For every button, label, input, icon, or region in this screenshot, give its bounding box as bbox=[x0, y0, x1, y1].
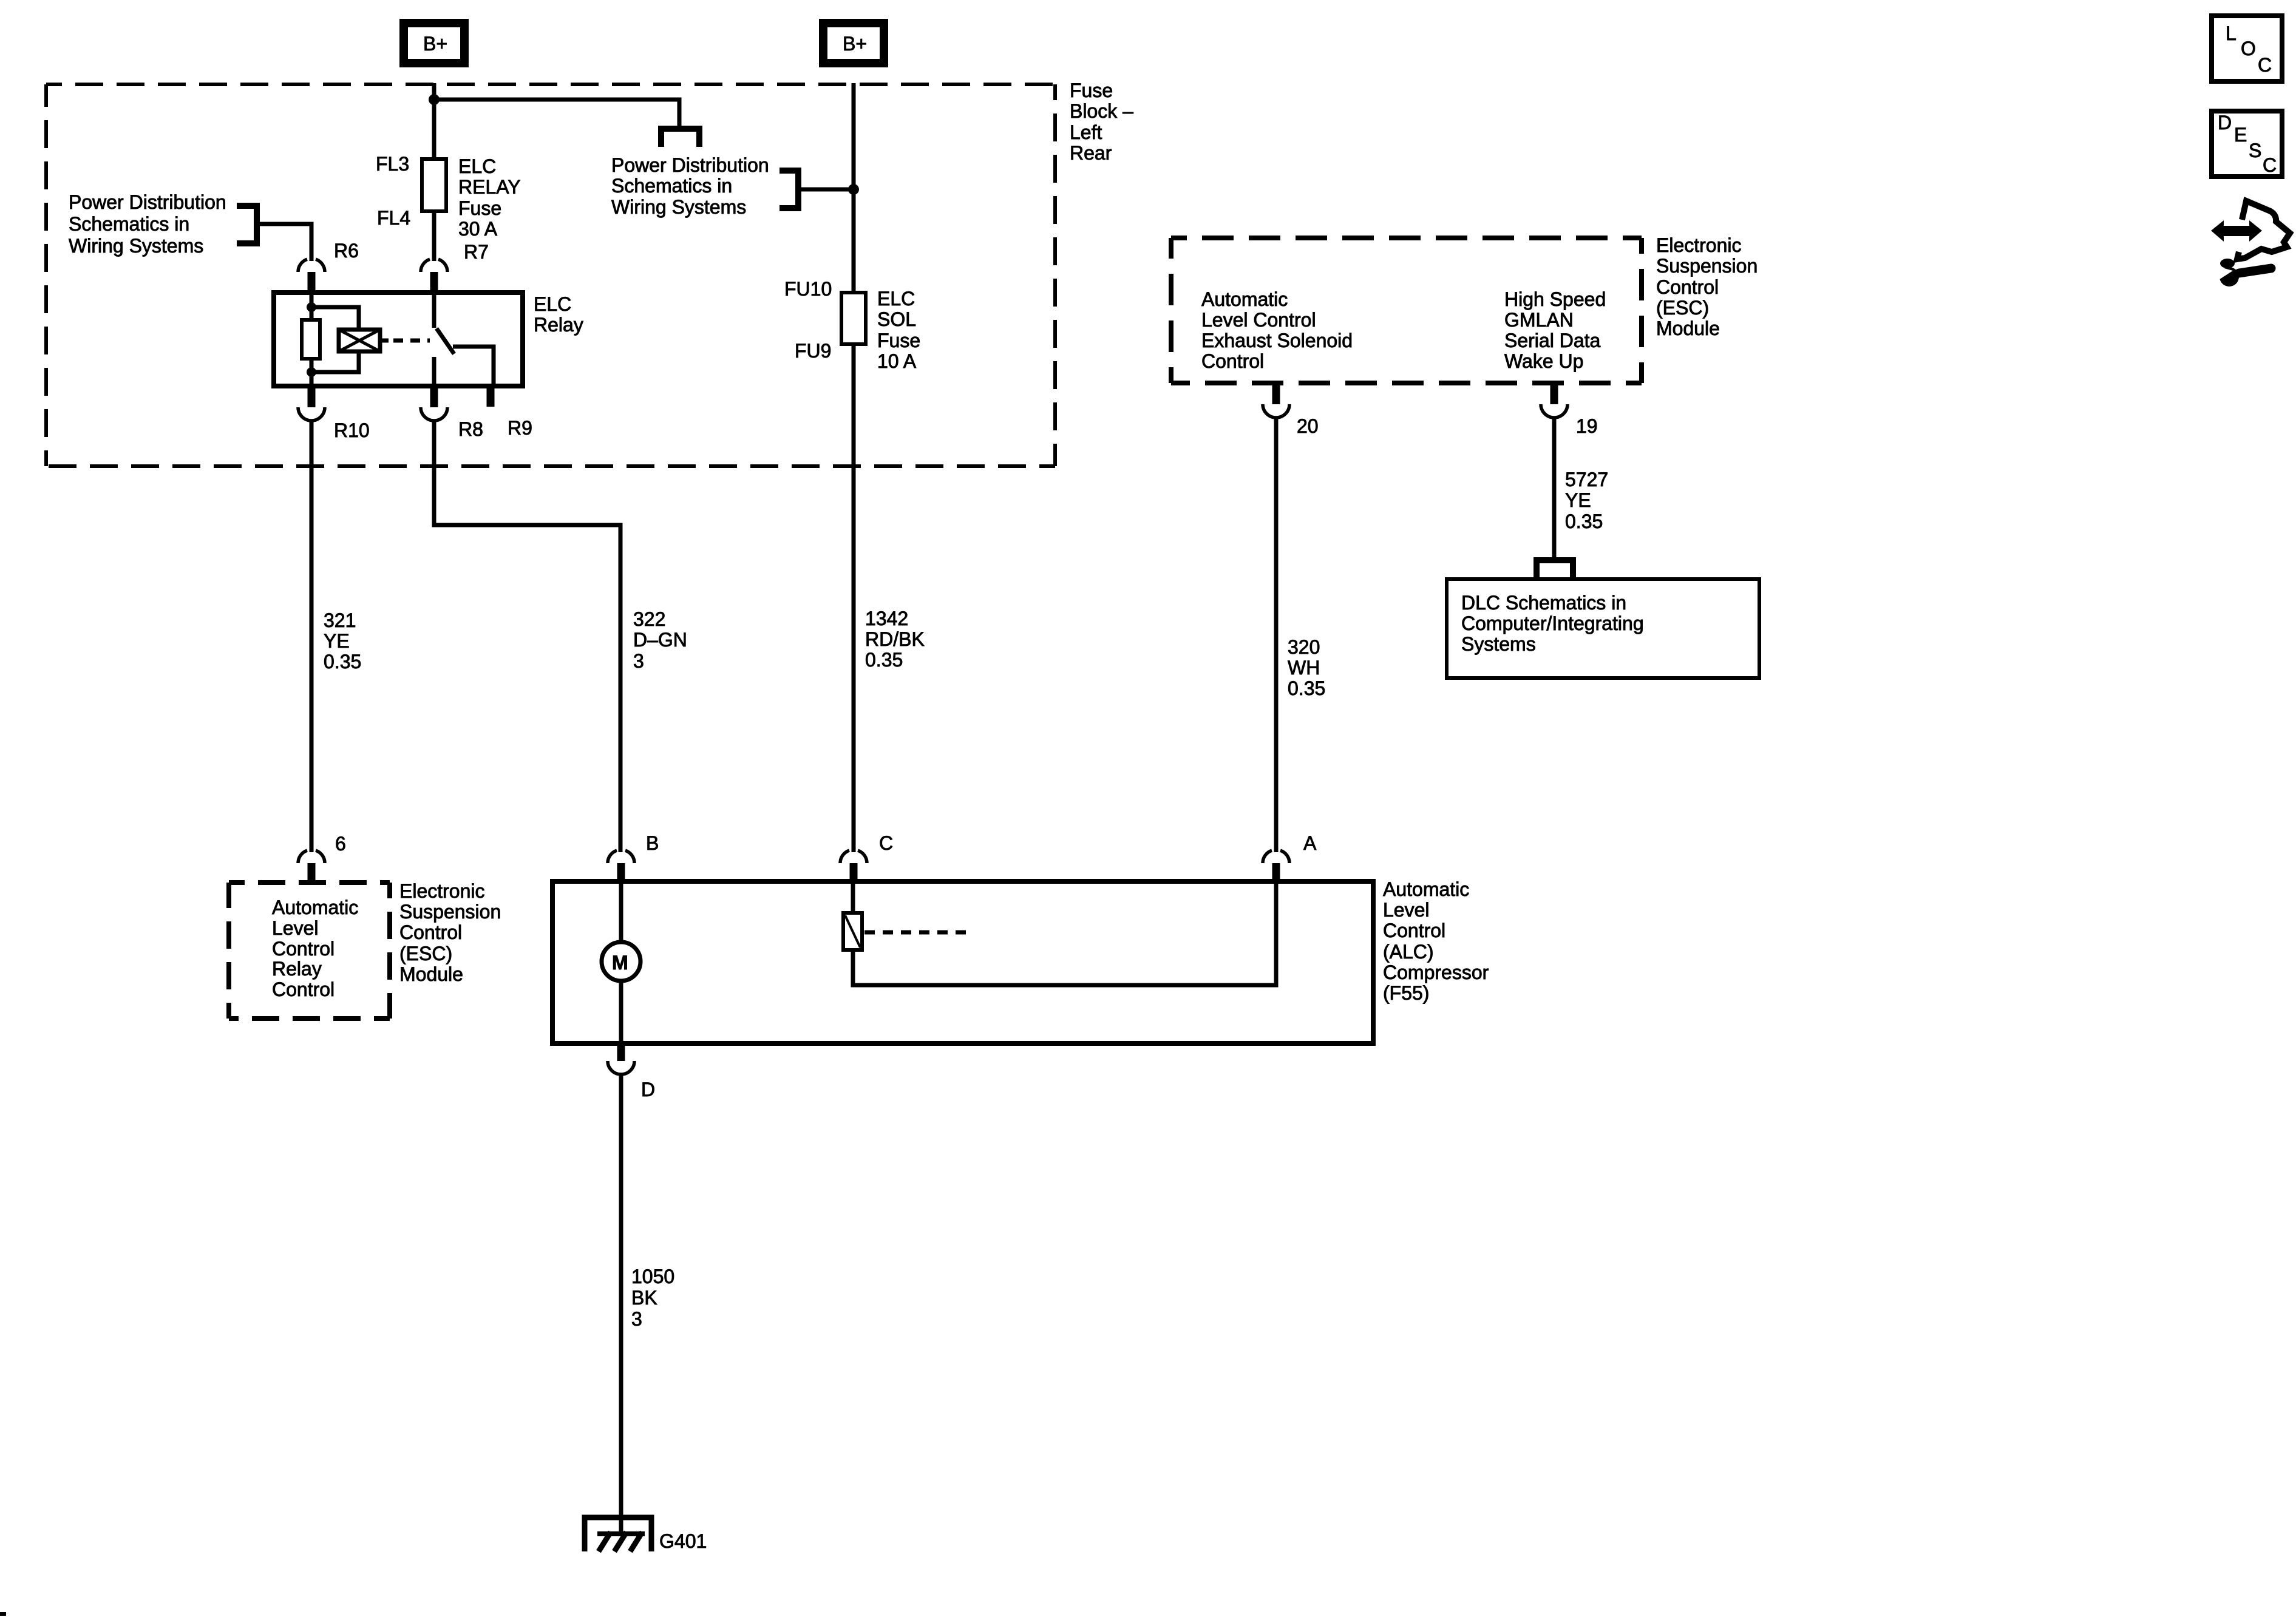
svg-text:FL3: FL3 bbox=[376, 153, 409, 175]
svg-text:1342: 1342 bbox=[865, 608, 908, 629]
svg-text:Fuse: Fuse bbox=[458, 197, 501, 219]
svg-text:A: A bbox=[1303, 832, 1317, 854]
svg-text:Suspension: Suspension bbox=[1656, 255, 1758, 277]
svg-text:O: O bbox=[2241, 38, 2256, 59]
svg-text:Compressor: Compressor bbox=[1383, 961, 1489, 983]
svg-text:Wiring Systems: Wiring Systems bbox=[69, 235, 203, 257]
svg-text:GMLAN: GMLAN bbox=[1504, 309, 1574, 331]
svg-text:S: S bbox=[2249, 140, 2261, 161]
svg-text:321: 321 bbox=[324, 609, 356, 631]
svg-text:G401: G401 bbox=[659, 1530, 707, 1552]
svg-text:FU9: FU9 bbox=[795, 340, 831, 362]
svg-text:(ESC): (ESC) bbox=[1656, 297, 1709, 319]
svg-text:Fuse: Fuse bbox=[877, 330, 920, 351]
svg-text:0.35: 0.35 bbox=[324, 651, 361, 673]
svg-text:Electronic: Electronic bbox=[1656, 234, 1742, 256]
svg-text:Systems: Systems bbox=[1461, 633, 1536, 655]
svg-text:Serial Data: Serial Data bbox=[1504, 330, 1601, 351]
svg-text:20: 20 bbox=[1297, 415, 1319, 437]
svg-text:Automatic: Automatic bbox=[1383, 878, 1469, 900]
svg-text:(F55): (F55) bbox=[1383, 982, 1429, 1004]
svg-text:Control: Control bbox=[1656, 276, 1719, 298]
svg-text:0.35: 0.35 bbox=[865, 649, 903, 671]
svg-text:320: 320 bbox=[1288, 636, 1320, 658]
svg-text:6: 6 bbox=[335, 833, 346, 855]
svg-text:Power Distribution: Power Distribution bbox=[69, 191, 226, 213]
svg-text:Exhaust Solenoid: Exhaust Solenoid bbox=[1201, 330, 1353, 351]
svg-text:R8: R8 bbox=[458, 418, 483, 440]
svg-text:B: B bbox=[646, 832, 659, 854]
svg-text:Wiring Systems: Wiring Systems bbox=[611, 196, 746, 218]
svg-text:Fuse: Fuse bbox=[1070, 80, 1113, 101]
svg-text:Relay: Relay bbox=[534, 314, 583, 336]
svg-text:Control: Control bbox=[1383, 920, 1445, 941]
svg-text:ELC: ELC bbox=[534, 293, 571, 315]
svg-text:Computer/Integrating: Computer/Integrating bbox=[1461, 612, 1644, 634]
svg-text:WH: WH bbox=[1288, 657, 1320, 679]
svg-text:Control: Control bbox=[399, 921, 462, 943]
svg-text:322: 322 bbox=[633, 608, 665, 630]
svg-text:10 A: 10 A bbox=[877, 350, 917, 372]
svg-text:Module: Module bbox=[1656, 317, 1720, 339]
svg-text:C: C bbox=[2263, 154, 2277, 176]
svg-text:E: E bbox=[2234, 124, 2247, 146]
svg-text:SOL: SOL bbox=[877, 308, 916, 330]
svg-text:(ALC): (ALC) bbox=[1383, 941, 1434, 963]
svg-text:Automatic: Automatic bbox=[272, 897, 358, 918]
svg-text:0.35: 0.35 bbox=[1288, 677, 1325, 699]
svg-text:B+: B+ bbox=[423, 33, 447, 55]
svg-text:RELAY: RELAY bbox=[458, 176, 521, 198]
svg-text:Schematics in: Schematics in bbox=[611, 175, 732, 197]
svg-text:Level Control: Level Control bbox=[1201, 309, 1316, 331]
svg-text:High Speed: High Speed bbox=[1504, 288, 1606, 310]
svg-text:ELC: ELC bbox=[458, 155, 496, 177]
svg-text:1050: 1050 bbox=[631, 1266, 674, 1287]
svg-text:3: 3 bbox=[631, 1308, 642, 1330]
svg-text:FU10: FU10 bbox=[784, 278, 832, 300]
svg-text:Left: Left bbox=[1070, 121, 1102, 143]
svg-text:FL4: FL4 bbox=[377, 207, 410, 229]
svg-text:Electronic: Electronic bbox=[399, 880, 485, 902]
svg-text:0.35: 0.35 bbox=[1565, 510, 1603, 532]
svg-text:3: 3 bbox=[633, 650, 644, 672]
svg-text:DLC Schematics in: DLC Schematics in bbox=[1461, 592, 1626, 614]
svg-text:Control: Control bbox=[272, 938, 335, 960]
svg-text:YE: YE bbox=[324, 630, 350, 652]
svg-text:D–GN: D–GN bbox=[633, 629, 687, 651]
svg-text:M: M bbox=[612, 952, 628, 974]
svg-text:D: D bbox=[2218, 112, 2232, 134]
svg-text:B+: B+ bbox=[843, 33, 867, 55]
svg-text:Rear: Rear bbox=[1070, 142, 1112, 164]
svg-text:Level: Level bbox=[272, 917, 319, 939]
svg-text:Suspension: Suspension bbox=[399, 901, 501, 923]
svg-text:(ESC): (ESC) bbox=[399, 943, 452, 964]
svg-text:Wake Up: Wake Up bbox=[1504, 350, 1583, 372]
svg-text:L: L bbox=[2226, 22, 2237, 44]
svg-text:C: C bbox=[2258, 54, 2272, 76]
svg-text:Block –: Block – bbox=[1070, 100, 1133, 122]
svg-text:Power Distribution: Power Distribution bbox=[611, 154, 769, 176]
svg-text:19: 19 bbox=[1576, 415, 1598, 437]
svg-text:C: C bbox=[879, 832, 893, 854]
svg-text:30 A: 30 A bbox=[458, 218, 498, 240]
svg-text:Automatic: Automatic bbox=[1201, 288, 1288, 310]
svg-text:R10: R10 bbox=[334, 419, 370, 441]
svg-text:D: D bbox=[641, 1079, 655, 1100]
svg-text:R9: R9 bbox=[508, 417, 532, 439]
svg-text:Schematics in: Schematics in bbox=[69, 213, 189, 235]
svg-text:5727: 5727 bbox=[1565, 469, 1608, 490]
svg-text:YE: YE bbox=[1565, 489, 1591, 511]
svg-text:Relay: Relay bbox=[272, 958, 322, 980]
svg-text:R7: R7 bbox=[464, 241, 489, 263]
svg-text:Control: Control bbox=[272, 978, 335, 1000]
svg-text:Level: Level bbox=[1383, 899, 1430, 921]
svg-text:BK: BK bbox=[631, 1287, 657, 1309]
svg-text:RD/BK: RD/BK bbox=[865, 628, 925, 650]
svg-text:ELC: ELC bbox=[877, 288, 915, 310]
svg-text:Control: Control bbox=[1201, 350, 1264, 372]
svg-text:Module: Module bbox=[399, 963, 463, 985]
svg-text:R6: R6 bbox=[334, 240, 359, 262]
